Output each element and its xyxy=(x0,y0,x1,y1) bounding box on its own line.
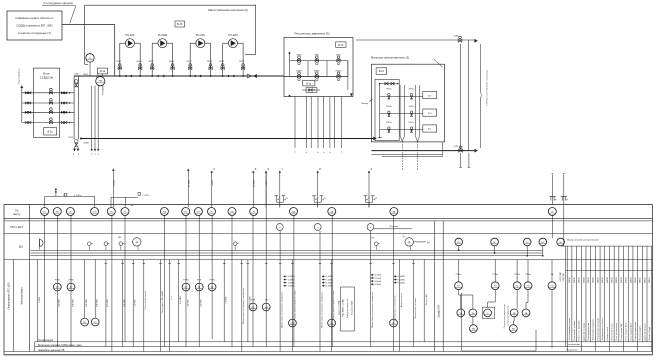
svg-text:300012: 300012 xyxy=(579,277,581,283)
svg-text:0,45 МПа: 0,45 МПа xyxy=(124,298,126,307)
svg-text:0,45 МПа: 0,45 МПа xyxy=(72,298,74,307)
svg-text:1,6 МПа: 1,6 МПа xyxy=(226,295,228,303)
svg-text:300023: 300023 xyxy=(630,277,632,283)
svg-text:300016: 300016 xyxy=(597,277,599,283)
svg-text:100м3: 100м3 xyxy=(375,275,382,277)
svg-text:Зав: Зав xyxy=(131,205,134,207)
svg-text:зРУ05 ПАЗ: зРУ05 ПАЗ xyxy=(559,272,562,281)
svg-text:RV92а: RV92а xyxy=(409,89,414,91)
svg-text:К УПСВ-2 на цех Ливн./Ключ. По: К УПСВ-2 на цех Ливн./Ключ. Покачевская xyxy=(487,70,489,106)
svg-text:RV84: RV84 xyxy=(137,61,143,63)
svg-text:сигнализация давления: сигнализация давления xyxy=(508,306,510,326)
svg-text:Регуляторы давления (3): Регуляторы давления (3) xyxy=(295,32,330,36)
svg-text:RV84п: RV84п xyxy=(314,70,320,72)
svg-text:В-1б: В-1б xyxy=(338,44,344,47)
svg-text:300015: 300015 xyxy=(593,277,595,283)
svg-text:ПАЗ НКПР и ССВД: ПАЗ НКПР и ССВД xyxy=(342,299,345,316)
svg-text:PT86: PT86 xyxy=(55,279,60,281)
svg-text:Сигнализация: Сигнализация xyxy=(567,344,580,346)
svg-text:ру: ру xyxy=(286,197,288,199)
svg-text:Защита и ССВД: Защита и ССВД xyxy=(338,300,340,315)
svg-text:120м3: 120м3 xyxy=(375,281,382,283)
svg-text:1,1МПа: 1,1МПа xyxy=(326,279,334,281)
svg-text:300025: 300025 xyxy=(640,277,642,283)
svg-text:RV91а: RV91а xyxy=(386,122,391,124)
svg-text:В-1б: В-1б xyxy=(379,70,385,73)
svg-text:RV92а: RV92а xyxy=(386,89,391,91)
svg-text:PT41: PT41 xyxy=(197,279,202,281)
svg-text:6,25 КПа: 6,25 КПа xyxy=(249,295,251,304)
svg-text:PT88: PT88 xyxy=(69,279,74,281)
svg-text:300013: 300013 xyxy=(583,277,585,283)
svg-text:Давление на вх.: Давление на вх. xyxy=(401,292,403,307)
svg-text:Потеря связи, сигнализация, ав: Потеря связи, сигнализация, автоматика xyxy=(321,291,323,328)
svg-text:ру: ру xyxy=(368,197,370,199)
svg-text:PT89п: PT89п xyxy=(183,279,189,281)
svg-text:0,45 МПа: 0,45 МПа xyxy=(86,298,88,307)
svg-text:Контроллеры: Контроллеры xyxy=(20,288,24,305)
svg-text:300019: 300019 xyxy=(611,277,613,283)
svg-text:Питание: Питание xyxy=(390,226,399,228)
svg-text:1,2МПа: 1,2МПа xyxy=(288,282,296,284)
svg-text:RV82: RV82 xyxy=(83,74,87,76)
svg-text:Включение клапанов ССВД по выс: Включение клапанов ССВД по выс. давл. xyxy=(38,345,83,347)
svg-text:Сигнал общий: Сигнал общий xyxy=(648,327,651,340)
svg-text:Давление затвора: Давление затвора xyxy=(644,323,646,341)
svg-text:Защита давления: Защита давления xyxy=(19,68,21,84)
svg-text:Шкаф САР: Шкаф САР xyxy=(438,304,441,317)
svg-text:1,0МПа: 1,0МПа xyxy=(288,276,296,278)
svg-text:1,3МПа: 1,3МПа xyxy=(326,286,334,288)
svg-text:Перепад давления: Перепад давления xyxy=(588,323,590,341)
svg-text:RV81: RV81 xyxy=(314,54,319,56)
svg-text:Откл. вентилятора: Откл. вентилятора xyxy=(616,322,618,340)
svg-text:В-1а: В-1а xyxy=(306,83,312,85)
svg-text:Пожар в блоке: Пожар в блоке xyxy=(607,326,609,341)
svg-text:RV85п: RV85п xyxy=(336,70,342,72)
svg-text:ССВД и длинных ВП , В41: ССВД и длинных ВП , В41 xyxy=(16,24,53,28)
svg-text:RV93а: RV93а xyxy=(409,106,414,108)
svg-text:В-1а: В-1а xyxy=(48,130,54,133)
svg-text:Темпер. личного давления нефти: Темпер. личного давления нефти xyxy=(332,290,335,320)
svg-text:ССВД (14): ССВД (14) xyxy=(40,76,54,80)
svg-text:CV80: CV80 xyxy=(74,73,80,75)
svg-text:Перегрев двигателя: Перегрев двигателя xyxy=(635,322,637,341)
svg-text:P188: P188 xyxy=(251,300,255,302)
svg-text:PU-02A: PU-02A xyxy=(125,33,134,37)
svg-text:PU-02D: PU-02D xyxy=(228,33,237,37)
svg-text:Двт: Двт xyxy=(427,242,430,244)
svg-text:1 г\п: 1 г\п xyxy=(171,296,173,300)
svg-text:0,3 МПа: 0,3 МПа xyxy=(201,298,203,306)
svg-text:Потеря связи, сигнализация, ав: Потеря связи, сигнализация, автоматика xyxy=(372,291,374,328)
svg-text:Резервное включ. нас.: Резервное включ. нас. xyxy=(347,298,349,318)
svg-text:300026: 300026 xyxy=(644,277,646,283)
svg-text:2-6ММ: 2-6ММ xyxy=(39,297,41,303)
svg-text:Шкаф силовой электропитания: Шкаф силовой электропитания xyxy=(567,239,600,242)
svg-text:0,45 МПа: 0,45 МПа xyxy=(59,298,61,307)
svg-text:Операторная НПС (КВ): Операторная НПС (КВ) xyxy=(8,282,11,309)
svg-text:Давление на входе: Давление на входе xyxy=(583,322,585,341)
svg-text:и насосы погружные (7): и насосы погружные (7) xyxy=(18,31,51,35)
svg-text:Темпер. личного давления нефти: Темпер. личного давления нефти xyxy=(294,290,297,320)
svg-text:Переключение давления нас.: Переключение давления нас. xyxy=(504,303,506,328)
svg-text:1,1МПа: 1,1МПа xyxy=(288,279,296,281)
svg-text:Затвор,: Затвор, xyxy=(361,103,369,105)
svg-text:300024: 300024 xyxy=(635,277,637,283)
svg-text:3,3 КПа: 3,3 КПа xyxy=(114,179,116,187)
svg-text:ру: ру xyxy=(555,199,557,201)
svg-text:0,25 МПа: 0,25 МПа xyxy=(107,298,109,307)
svg-text:T88: T88 xyxy=(265,300,268,302)
svg-text:0,8 МПа: 0,8 МПа xyxy=(187,298,189,306)
svg-text:0,6 МПа: 0,6 МПа xyxy=(254,179,256,187)
svg-text:От погружных насосов: От погружных насосов xyxy=(43,1,73,5)
svg-text:PT90п: PT90п xyxy=(209,279,215,281)
svg-text:В-1б: В-1б xyxy=(177,22,183,26)
svg-text:300011: 300011 xyxy=(574,277,576,283)
svg-text:Сигн. не закр. клапан: Сигн. не закр. клапан xyxy=(145,291,147,310)
svg-text:CV87: CV87 xyxy=(454,146,460,148)
svg-text:месту: месту xyxy=(13,213,21,216)
svg-text:300020: 300020 xyxy=(616,277,618,283)
svg-text:Фильтры-грязеуловители (2): Фильтры-грязеуловители (2) xyxy=(371,56,409,60)
svg-text:Сигнализация: Сигнализация xyxy=(38,340,54,342)
svg-text:110м3: 110м3 xyxy=(375,278,382,280)
svg-text:Токовая защита: Токовая защита xyxy=(640,325,642,341)
svg-text:RV87: RV87 xyxy=(187,61,193,63)
svg-text:ру: ру xyxy=(566,199,568,201)
svg-text:Магистральная насосная (2): Магистральная насосная (2) xyxy=(208,8,248,12)
svg-text:А МПа: А МПа xyxy=(211,179,214,186)
svg-text:ру: ру xyxy=(279,197,281,199)
svg-text:1,2МПа: 1,2МПа xyxy=(398,282,406,284)
svg-text:300018: 300018 xyxy=(607,277,609,283)
svg-text:CV88: CV88 xyxy=(453,35,459,37)
svg-text:RV89: RV89 xyxy=(219,61,225,63)
svg-text:ру: ру xyxy=(317,197,319,199)
svg-text:ру: ру xyxy=(324,197,326,199)
svg-text:КТП и ЩСУ: КТП и ЩСУ xyxy=(10,226,24,229)
svg-text:RV82: RV82 xyxy=(336,54,341,56)
svg-text:1,1 КПа: 1,1 КПа xyxy=(142,195,150,197)
svg-text:RV85: RV85 xyxy=(149,61,155,63)
svg-text:0,1 МПа: 0,1 МПа xyxy=(189,179,191,187)
svg-text:Потеря связи, сигнализация: Потеря связи, сигнализация xyxy=(395,296,397,321)
svg-text:Аварийное давление НВ: Аварийное давление НВ xyxy=(38,349,65,352)
svg-text:Температура подшипн.: Температура подшипн. xyxy=(593,319,595,341)
svg-text:Считч. давл. и РК в РНЕТ: Считч. давл. и РК в РНЕТ xyxy=(162,290,164,313)
svg-text:300017: 300017 xyxy=(602,277,604,283)
svg-text:1,2МПа: 1,2МПа xyxy=(326,282,334,284)
svg-text:300014: 300014 xyxy=(588,277,590,283)
svg-text:Потеря связи, сигнализ.: Потеря связи, сигнализ. xyxy=(415,297,417,319)
svg-text:0,45 МПа: 0,45 МПа xyxy=(97,298,99,307)
svg-text:В автоматич. режиме: В автоматич. режиме xyxy=(574,320,576,341)
svg-text:Запись в БД: Запись в БД xyxy=(426,294,428,305)
svg-text:ру: ру xyxy=(375,197,377,199)
svg-text:PU-02B: PU-02B xyxy=(158,33,167,37)
svg-text:Откл. ввода 1 ЩСУ: Откл. ввода 1 ЩСУ xyxy=(626,322,628,341)
svg-text:1,1МПа: 1,1МПа xyxy=(398,279,406,281)
svg-text:Аварийная: Аварийная xyxy=(567,348,577,351)
svg-text:0,25 МПа: 0,25 МПа xyxy=(180,295,182,304)
svg-text:ЩУ: ЩУ xyxy=(19,245,24,249)
svg-text:Загазованность в блоке: Загазованность в блоке xyxy=(602,318,604,341)
svg-text:НС давление на выходе: НС давление на выходе xyxy=(597,317,599,340)
svg-text:CV81: CV81 xyxy=(68,137,74,139)
svg-text:Скважины нефти сброса от: Скважины нефти сброса от xyxy=(15,16,54,20)
svg-text:RV93а: RV93а xyxy=(386,106,391,108)
svg-text:Потеря связи, сигнализация, ав: Потеря связи, сигнализация, автоматика xyxy=(243,287,245,324)
svg-text:Электрозадвижка входн.: Электрозадвижка входн. xyxy=(569,317,571,340)
svg-text:RV91а: RV91а xyxy=(409,122,414,124)
svg-text:ГТН ПЛЛМ: ГТН ПЛЛМ xyxy=(103,85,105,95)
svg-text:Потеря связи, сигнализация, ав: Потеря связи, сигнализация, автоматика xyxy=(282,291,284,328)
svg-text:300027: 300027 xyxy=(649,277,651,283)
svg-text:300021: 300021 xyxy=(621,277,623,283)
svg-text:Ду: Ду xyxy=(372,237,374,239)
svg-text:РВД ПАЗ: РВД ПАЗ xyxy=(562,273,565,281)
svg-text:По: По xyxy=(15,209,19,213)
svg-text:1,0МПа: 1,0МПа xyxy=(326,276,334,278)
svg-text:1,0МПа: 1,0МПа xyxy=(398,276,406,278)
svg-text:Насос откл. аварийно: Насос откл. аварийно xyxy=(578,319,581,340)
svg-text:Откл. ввода 2 ЩСУ: Откл. ввода 2 ЩСУ xyxy=(630,322,632,341)
svg-text:300010: 300010 xyxy=(569,277,571,283)
svg-text:PU-02C: PU-02C xyxy=(196,33,205,37)
svg-text:130м3: 130м3 xyxy=(375,284,382,286)
svg-text:Ду: Ду xyxy=(403,236,405,238)
svg-text:Затопление блока: Затопление блока xyxy=(611,323,613,341)
svg-text:1,3МПа: 1,3МПа xyxy=(288,286,296,288)
svg-text:300022: 300022 xyxy=(626,277,628,283)
svg-text:CV86В: CV86В xyxy=(83,143,89,145)
svg-text:RV80: RV80 xyxy=(297,54,302,56)
svg-text:1,6 МПа: 1,6 МПа xyxy=(135,298,137,306)
svg-text:1,1 КПа: 1,1 КПа xyxy=(74,195,82,197)
svg-text:В-1а: В-1а xyxy=(100,70,106,73)
svg-text:RV83п: RV83п xyxy=(296,70,302,72)
svg-text:t +80 С: t +80 С xyxy=(265,179,268,186)
svg-text:Потеря связи САР: Потеря связи САР xyxy=(620,323,623,341)
svg-text:В заслонке ПАЗ: В заслонке ПАЗ xyxy=(351,300,354,315)
